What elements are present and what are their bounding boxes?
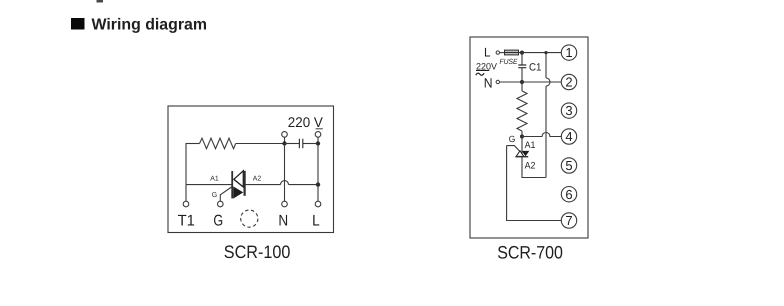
terminal circle L input bbox=[496, 51, 499, 54]
page artifact mark top edge bbox=[97, 0, 104, 3]
node: junction dot middle of L column bbox=[316, 182, 320, 186]
svg-text:SCR-700: SCR-700 bbox=[497, 243, 563, 263]
wire: fuse to terminal 1 bbox=[519, 52, 562, 54]
resistor R2 lead bottom bbox=[521, 131, 523, 137]
SCR-100 module outline bbox=[168, 106, 334, 233]
capacitor C1 plates bbox=[299, 139, 302, 148]
potentiometer dashed circle bbox=[241, 210, 258, 227]
terminal circle 2 bbox=[561, 74, 576, 89]
terminal circle 3 bbox=[561, 103, 576, 118]
wire hop over N wire bbox=[546, 78, 550, 86]
SCR-700 module outline bbox=[470, 37, 588, 238]
wire: crossover to L junction bbox=[289, 184, 319, 186]
triac Q2 cathode bar bbox=[515, 156, 528, 158]
svg-text:3: 3 bbox=[565, 103, 572, 118]
svg-text:2: 2 bbox=[565, 75, 572, 90]
node: junction dot N-C1 bbox=[520, 80, 524, 84]
terminal circle T1 bbox=[183, 201, 189, 207]
wire: resistor to node N-top bbox=[236, 143, 285, 145]
terminal stub above N junction bbox=[284, 137, 286, 141]
terminal circle N bbox=[282, 201, 288, 207]
svg-text:C1: C1 bbox=[529, 61, 542, 73]
svg-text:A1: A1 bbox=[210, 176, 219, 183]
terminal circle 1 bbox=[561, 45, 576, 60]
svg-text:220 V: 220 V bbox=[288, 114, 324, 130]
wire: N node to capacitor bbox=[285, 143, 300, 145]
gate wire to triac Q1 bbox=[220, 187, 232, 202]
wire hop over N column bbox=[281, 181, 289, 185]
wire: gate down to terminal 7 bbox=[507, 146, 562, 221]
svg-text:FUSE: FUSE bbox=[500, 57, 519, 66]
wire: triac to N crossover bbox=[245, 184, 281, 186]
svg-text:7: 7 bbox=[565, 213, 572, 228]
svg-text:5: 5 bbox=[565, 158, 572, 173]
wire: L column vertical bbox=[317, 146, 319, 202]
wire: node to terminal 4 with hop bbox=[522, 133, 561, 137]
terminal circle 5 bbox=[561, 158, 576, 173]
resistor R2 lead top bbox=[521, 82, 523, 91]
capacitor C1 plates bbox=[518, 65, 526, 68]
terminal circle 4 bbox=[561, 129, 576, 144]
terminal circle 220V right bbox=[315, 132, 321, 138]
svg-text:Wiring diagram: Wiring diagram bbox=[92, 16, 208, 33]
terminal circle N input bbox=[496, 80, 499, 83]
svg-text:L: L bbox=[484, 46, 491, 60]
fuse F1 bbox=[505, 50, 519, 55]
resistor R1 bbox=[200, 138, 236, 149]
svg-text:N: N bbox=[278, 212, 288, 229]
node: junction dot gate-resistor bbox=[520, 134, 524, 138]
capacitor C1 lead upper bbox=[521, 53, 523, 65]
wire: capacitor to node L-top bbox=[303, 143, 318, 145]
terminal circle 6 bbox=[561, 187, 576, 202]
svg-text:L: L bbox=[312, 212, 320, 229]
svg-text:SCR-100: SCR-100 bbox=[224, 242, 291, 262]
svg-text:A2: A2 bbox=[525, 160, 536, 171]
terminal circle 7 bbox=[561, 213, 576, 228]
capacitor C1 lead lower bbox=[521, 68, 523, 82]
wire: top lead into resistor bbox=[186, 143, 200, 145]
triac Q1 open triangle bbox=[234, 171, 244, 187]
gate wire of triac Q2 bbox=[507, 146, 520, 152]
svg-text:4: 4 bbox=[565, 129, 572, 144]
triac Q1 bar A2 side bbox=[244, 171, 246, 196]
svg-text:T1: T1 bbox=[178, 212, 195, 229]
wire: N column vertical bbox=[284, 146, 286, 202]
wire: left vertical from resistor corner down to terminal T1 bbox=[185, 144, 187, 202]
terminal stub above L junction bbox=[317, 137, 319, 141]
underline under 220 bbox=[476, 70, 489, 72]
triac Q2 filled triangle bbox=[522, 151, 530, 157]
wire: L circle to fuse bbox=[500, 52, 505, 54]
triac Q2 open triangle bbox=[516, 151, 524, 157]
node: junction dot at N column top bbox=[282, 141, 286, 145]
svg-text:A2: A2 bbox=[253, 176, 262, 183]
triac Q1 filled triangle bbox=[233, 186, 243, 198]
AC tilde symbol bbox=[476, 73, 484, 75]
wire: middle horizontal from T1 column to triac bbox=[186, 184, 232, 186]
title bullet square bbox=[71, 18, 85, 30]
svg-text:N: N bbox=[484, 75, 493, 90]
node: junction dot L-C1 bbox=[520, 51, 524, 55]
svg-text:G: G bbox=[509, 134, 516, 144]
node: junction dot at L column top bbox=[316, 141, 320, 145]
svg-text:G: G bbox=[212, 192, 217, 199]
wire: A2 riser up to L node with hop bbox=[545, 53, 547, 178]
wire: node down to triac Q2 bbox=[521, 137, 523, 158]
svg-text:A1: A1 bbox=[525, 140, 536, 151]
underline mark under V bbox=[316, 128, 323, 130]
wire: triac A2 down and right bbox=[522, 157, 546, 178]
svg-text:6: 6 bbox=[565, 187, 572, 202]
wire: N circle to terminal 2 bbox=[500, 81, 562, 83]
svg-text:G: G bbox=[213, 212, 223, 229]
svg-text:1: 1 bbox=[565, 45, 572, 60]
terminal circle G bbox=[218, 201, 224, 207]
triac Q1 bar A1 side bbox=[231, 171, 233, 198]
terminal circle 220V left bbox=[282, 132, 288, 138]
resistor R2 bbox=[517, 91, 527, 131]
terminal circle L bbox=[315, 201, 321, 207]
node: junction dot at A2 branch bbox=[544, 51, 547, 54]
